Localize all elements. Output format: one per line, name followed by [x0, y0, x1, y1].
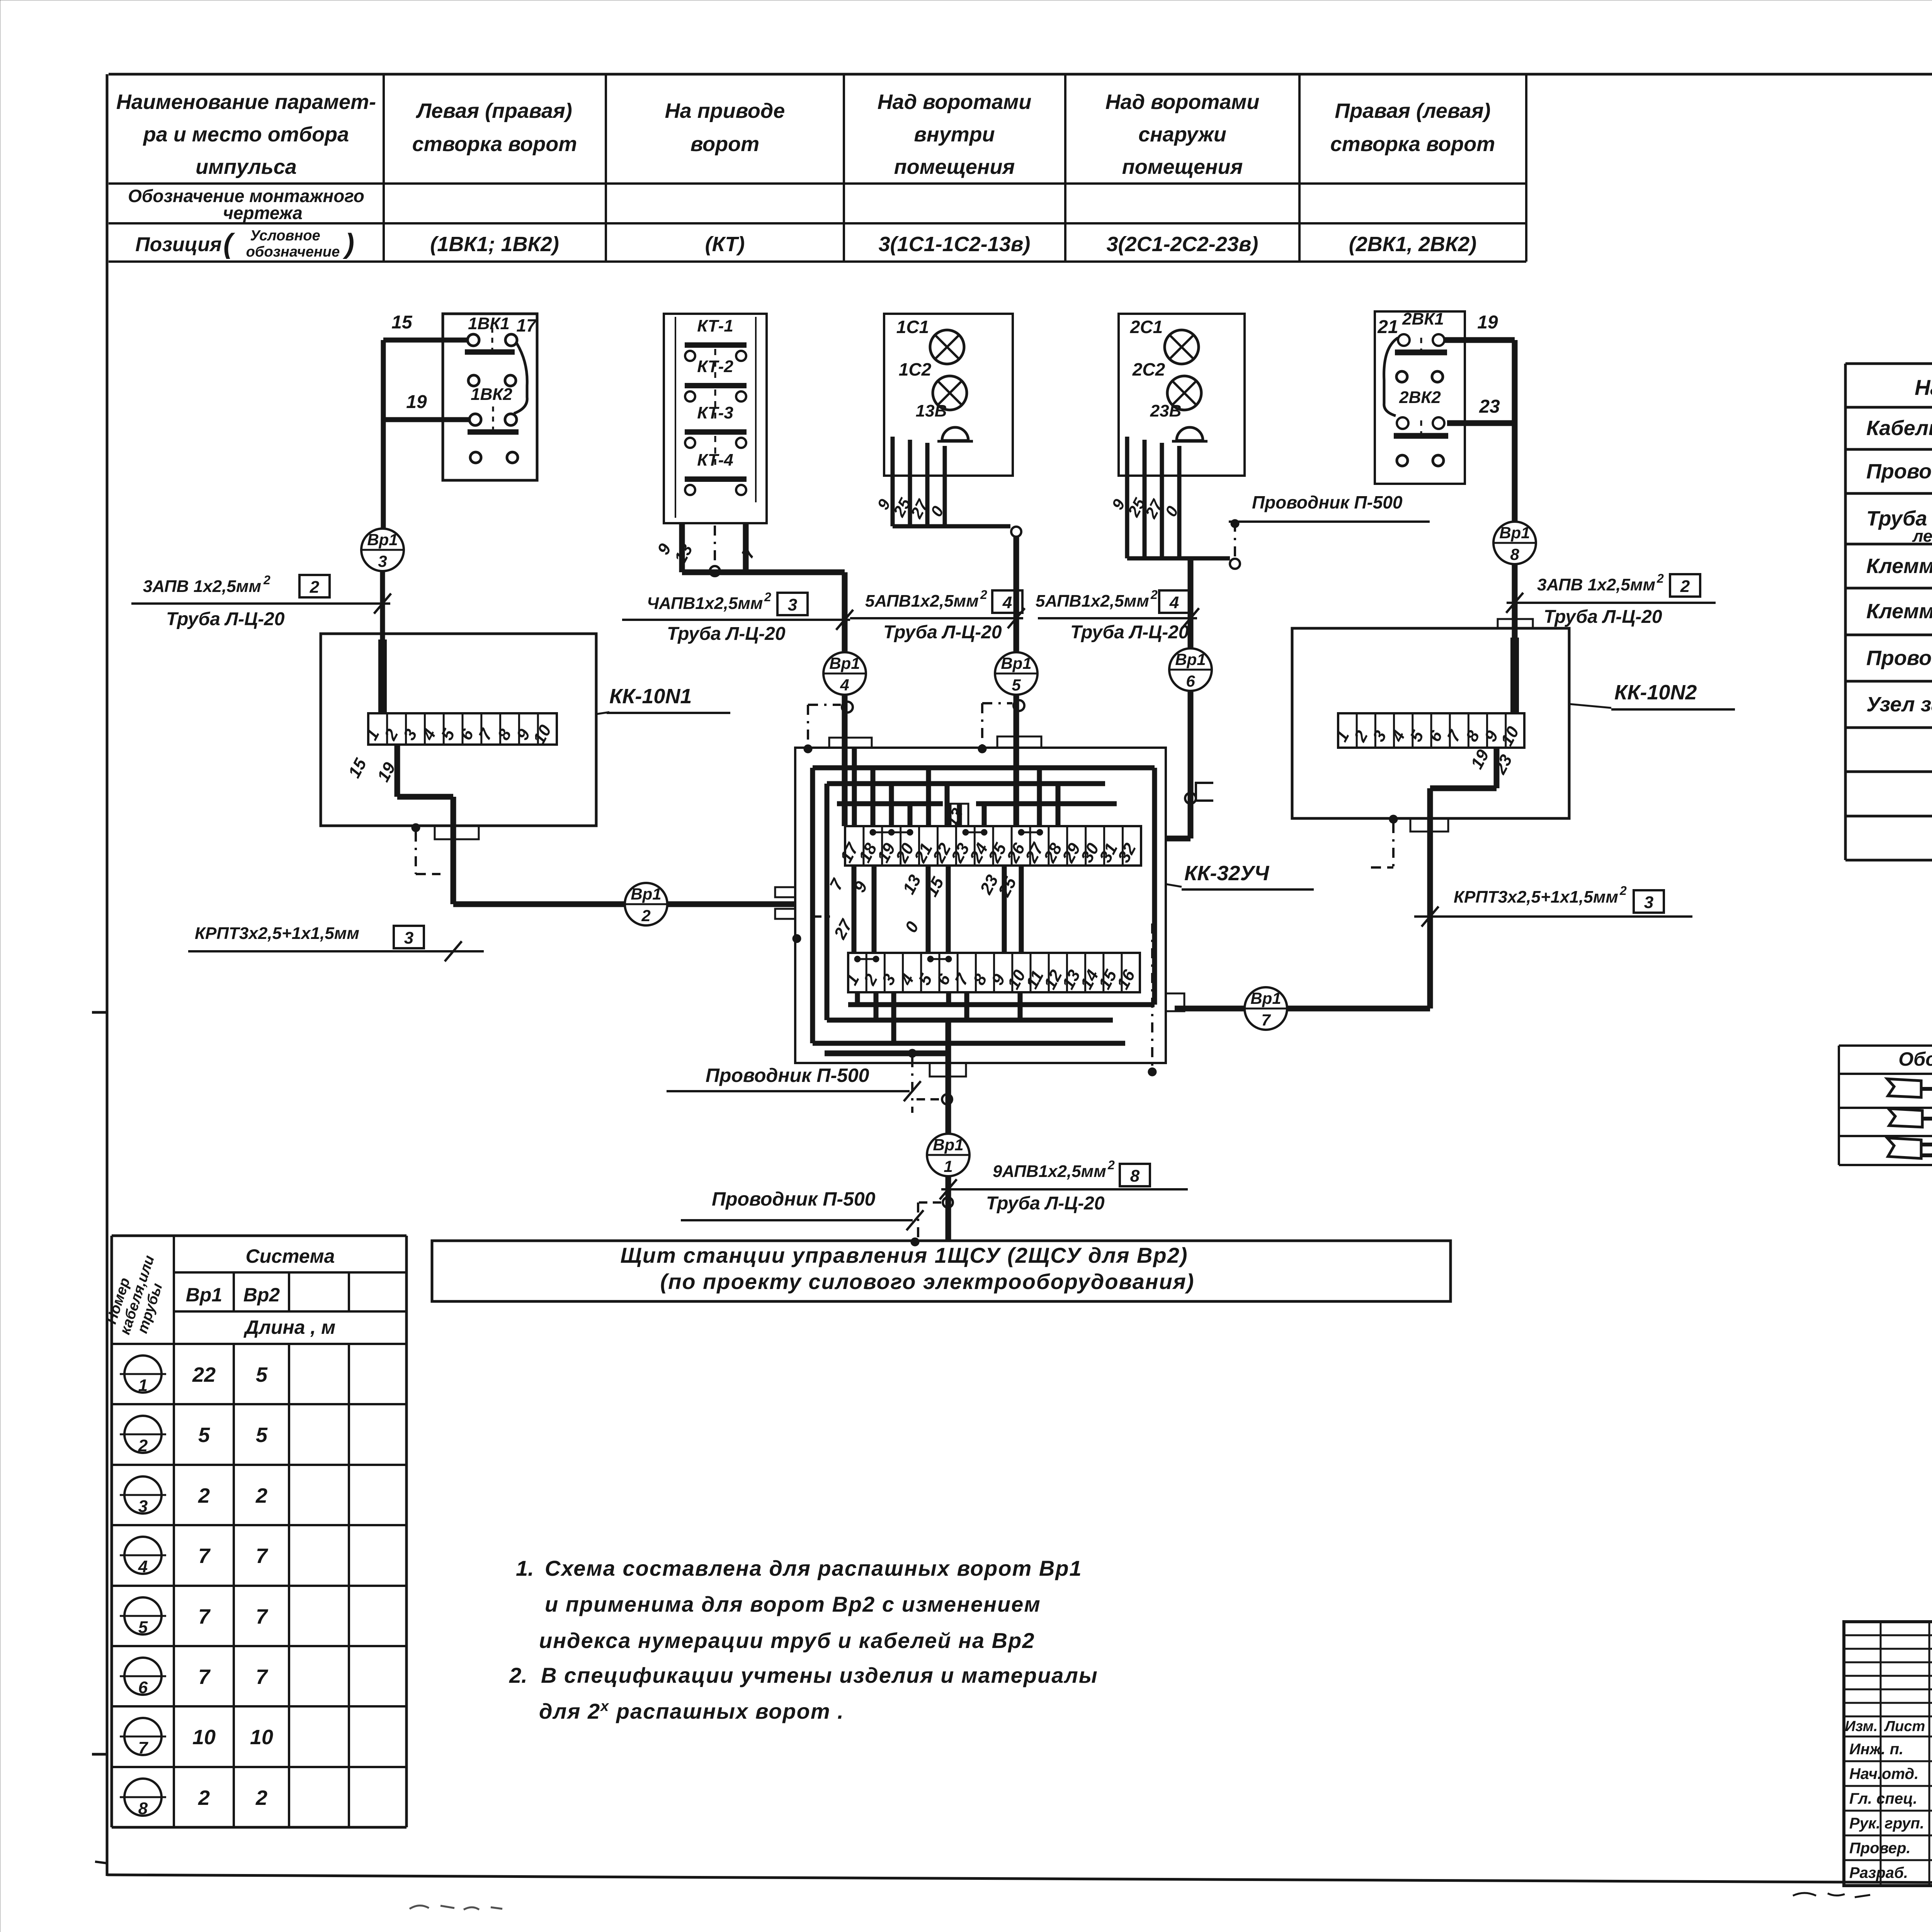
svg-text:Проводник П-500: Проводник П-500 — [1252, 492, 1403, 512]
earth circle 2С — [1230, 559, 1240, 569]
svg-text:7: 7 — [256, 1605, 269, 1628]
svg-text:Вр1: Вр1 — [631, 885, 661, 903]
svg-text:3: 3 — [404, 929, 413, 947]
legend row 3 symbol — [1887, 1138, 1921, 1158]
earth circle on riser 2 — [943, 1197, 953, 1207]
svg-text:Рук. груп.: Рук. груп. — [1849, 1815, 1924, 1832]
svg-text:2: 2 — [1107, 1158, 1115, 1172]
svg-text:Клеммная коробка: Клеммная коробка — [1866, 600, 1932, 623]
svg-text:2С2: 2С2 — [1132, 359, 1165, 379]
svg-text:2: 2 — [255, 1786, 267, 1810]
svg-text:КК-32УЧ: КК-32УЧ — [1184, 862, 1270, 885]
svg-text:8: 8 — [138, 1799, 148, 1818]
cable number box 3 — [394, 926, 424, 948]
svg-text:Вр1: Вр1 — [1175, 650, 1206, 668]
sheet frame bottom border — [107, 1875, 1932, 1886]
cable number box 3 — [777, 593, 808, 615]
earth circle under КТ — [710, 566, 720, 576]
svg-text:19: 19 — [1477, 312, 1498, 333]
svg-text:Правая (левая): Правая (левая) — [1335, 99, 1490, 122]
svg-text:2: 2 — [255, 1484, 267, 1507]
svg-text:КТ-4: КТ-4 — [697, 451, 733, 469]
specification table grid — [1844, 364, 1847, 860]
svg-text:7: 7 — [198, 1665, 211, 1689]
svg-text:2.: 2. — [509, 1663, 527, 1687]
svg-text:2: 2 — [198, 1786, 210, 1810]
svg-text:Клеммная коробка: Клеммная коробка — [1866, 554, 1932, 578]
svg-text:8: 8 — [1130, 1167, 1140, 1185]
svg-text:и применима для ворот Вр2: и применима для ворот Вр2 с изменением — [545, 1592, 1041, 1616]
control station panel box ЩСУ — [432, 1241, 1451, 1301]
marker Вр1/5 — [995, 652, 1037, 695]
svg-text:7: 7 — [1261, 1011, 1271, 1029]
svg-text:2: 2 — [310, 578, 320, 597]
svg-text:Над воротами: Над воротами — [878, 90, 1032, 114]
sheet frame top border — [109, 73, 1932, 76]
svg-text:5: 5 — [256, 1363, 268, 1386]
svg-text:для 2х распашных ворот .: для 2х распашных ворот . — [539, 1698, 844, 1723]
marker Вр1/4 — [823, 652, 866, 695]
svg-text:1С1: 1С1 — [896, 317, 929, 337]
svg-text:Условное: Условное — [250, 228, 320, 244]
svg-text:Щит станции управления: Щит станции управления 1ЩСУ (2ЩСУ для Вр… — [620, 1243, 1188, 1267]
svg-text:2: 2 — [641, 906, 650, 925]
cable row marker circle 4 — [124, 1537, 162, 1574]
lamp 1С2 — [933, 376, 967, 410]
svg-text:снаружи: снаружи — [1138, 123, 1226, 146]
svg-text:ворот: ворот — [690, 133, 759, 156]
cable КРПТ to Вр1/2 — [453, 901, 625, 907]
limit switch box 2ВК1/2ВК2 — [1375, 311, 1465, 484]
svg-text:13В: 13В — [916, 401, 947, 420]
КК-10N1 label — [596, 712, 609, 714]
bump connector on top of КК-10N2 — [1498, 619, 1533, 628]
earth circle below Вр1/4 — [842, 702, 853, 713]
svg-text:(1ВК1; 1ВК2): (1ВК1; 1ВК2) — [430, 233, 559, 256]
limit switch box 1ВК1/1ВК2 — [443, 314, 537, 480]
svg-text:2: 2 — [138, 1436, 148, 1455]
thick feeder inside КК-10N1 — [378, 639, 387, 713]
svg-text:Кабель контрольный: Кабель контрольный — [1866, 417, 1932, 440]
svg-text:9АПВ1х2,5мм: 9АПВ1х2,5мм — [993, 1162, 1106, 1181]
stray pencil note bottom left of title block — [1793, 1893, 1870, 1897]
earth dash-dot to П-500 (first) — [911, 1057, 913, 1113]
svg-text:помещения: помещения — [894, 155, 1015, 179]
svg-text:КТ-3: КТ-3 — [697, 403, 733, 422]
middle pin circles — [468, 375, 479, 386]
svg-text:Вр1: Вр1 — [933, 1136, 963, 1154]
legend row 2 symbol — [1888, 1109, 1922, 1127]
svg-text:3: 3 — [1644, 893, 1653, 912]
svg-text:1ВК2: 1ВК2 — [471, 385, 512, 404]
svg-text:КТ-2: КТ-2 — [697, 357, 733, 376]
svg-text:Схема составлена для расп: Схема составлена для распашных ворот Вр1 — [545, 1556, 1082, 1580]
jumper 21 to 2ВК2 — [1384, 338, 1398, 416]
wire 15 — [383, 338, 468, 343]
svg-text:Над воротами: Над воротами — [1105, 90, 1260, 114]
svg-text:3: 3 — [788, 595, 797, 614]
svg-text:Позиция: Позиция — [135, 233, 221, 256]
top terminal strip 17-32 — [845, 826, 1141, 866]
connector tabs on КК-32УЧ left — [775, 887, 795, 897]
contact 2ВК2 — [1397, 417, 1408, 429]
svg-text:4: 4 — [840, 676, 849, 694]
svg-text:импульса: импульса — [196, 155, 297, 179]
cable number box 4 — [992, 590, 1022, 613]
jumper bridges with dots on strips — [873, 832, 910, 833]
svg-text:чертежа: чертежа — [223, 203, 303, 223]
wire КК-32УЧ to Вр1/7 — [1175, 1006, 1245, 1012]
svg-text:22: 22 — [192, 1363, 216, 1386]
svg-text:Разраб.: Разраб. — [1849, 1864, 1908, 1881]
svg-text:3(2С1-2С2-23в): 3(2С1-2С2-23в) — [1107, 233, 1259, 256]
earth dash-dot under КК-10N2 — [1389, 815, 1398, 823]
cable number box 3 — [1634, 890, 1664, 913]
svg-text:2С1: 2С1 — [1130, 317, 1163, 337]
bell 13В — [942, 427, 968, 440]
earth dash-dot inside left — [811, 915, 835, 918]
strip exit wires 15/19 — [395, 745, 400, 797]
svg-text:Проводник П-500: Проводник П-500 — [706, 1065, 869, 1086]
svg-text:Гл. спец.: Гл. спец. — [1849, 1790, 1917, 1807]
wire Вр1/6 down — [1188, 691, 1194, 838]
svg-text:Вр1: Вр1 — [829, 654, 860, 672]
svg-text:Нач.отд.: Нач.отд. — [1849, 1765, 1918, 1782]
bottom pin circles — [1397, 455, 1408, 466]
internal bus wires — [813, 765, 1155, 770]
svg-text:Провер.: Провер. — [1849, 1840, 1911, 1857]
riser to Вр1/8 — [1512, 340, 1518, 522]
svg-text:19: 19 — [406, 392, 427, 412]
top parameters table grid — [383, 74, 385, 262]
svg-text:8: 8 — [1510, 545, 1519, 563]
legend row 1 symbol (flag + dash-dot line) — [1887, 1079, 1921, 1097]
svg-text:17: 17 — [516, 315, 537, 335]
bus drops below bottom strip — [855, 992, 860, 1005]
wire 23 — [1447, 420, 1515, 426]
cable row marker circle 2 — [124, 1416, 162, 1453]
svg-text:Инж. п.: Инж. п. — [1849, 1741, 1903, 1758]
svg-text:2: 2 — [764, 590, 771, 604]
earth circle on Вр1/6 wire — [1185, 793, 1196, 804]
КК-10N2 terminal strip — [1338, 713, 1524, 748]
svg-text:3АПВ 1х2,5мм: 3АПВ 1х2,5мм — [143, 577, 261, 596]
cable number box 2 — [1670, 574, 1700, 597]
svg-text:3: 3 — [138, 1497, 148, 1516]
wire Вр1/3 to КК-10N1 — [380, 571, 385, 713]
svg-text:3АПВ 1х2,5мм: 3АПВ 1х2,5мм — [1537, 575, 1655, 594]
svg-text:7: 7 — [138, 1738, 149, 1757]
lamp 2С1 — [1165, 330, 1199, 364]
bump connector under КК-10N1 — [435, 826, 479, 839]
svg-text:Обозначение: Обозначение — [1898, 1048, 1932, 1070]
connector tab to Вр1/7 — [1166, 993, 1184, 1011]
svg-text:Наименование: Наименование — [1915, 375, 1932, 400]
terminal box КК-10N1 — [321, 634, 596, 826]
inter-strip wires — [852, 866, 857, 953]
svg-text:1: 1 — [944, 1157, 952, 1175]
svg-text:створка ворот: створка ворот — [412, 133, 577, 156]
earth circle 1С — [1011, 527, 1021, 537]
marker Вр1/7 — [1245, 987, 1287, 1030]
svg-text:Труба Л-Ц-20: Труба Л-Ц-20 — [883, 622, 1002, 643]
svg-text:1С2: 1С2 — [899, 359, 932, 379]
svg-text:4: 4 — [138, 1557, 148, 1576]
svg-text:Наименование парамет-: Наименование парамет- — [116, 90, 376, 114]
cable row marker circle 8 — [124, 1779, 162, 1816]
svg-text:Труба Л-Ц-20: Труба Л-Ц-20 — [1544, 607, 1662, 627]
svg-text:Труба Л-Ц-20: Труба Л-Ц-20 — [1070, 622, 1189, 643]
svg-text:7: 7 — [198, 1605, 211, 1628]
svg-text:6: 6 — [1186, 672, 1195, 690]
riser to Вр1/4 — [842, 572, 848, 652]
svg-text:Левая (правая): Левая (правая) — [415, 99, 572, 122]
lamp box 1С1/1С2/13В — [884, 314, 1013, 476]
2С group exit wires — [1125, 437, 1129, 558]
svg-text:2ВК2: 2ВК2 — [1399, 388, 1441, 407]
contact 2ВК1 — [1398, 334, 1410, 346]
svg-text:ра и место отбора: ра и место отбора — [143, 123, 349, 146]
svg-text:КК-10N1: КК-10N1 — [609, 685, 692, 708]
svg-text:Вр2: Вр2 — [243, 1284, 280, 1306]
inner outline — [675, 317, 676, 518]
contact 1ВК1 — [468, 334, 479, 346]
cable number box 2 — [299, 575, 330, 597]
svg-text:Труба Л-Ц-20: Труба Л-Ц-20 — [166, 609, 285, 629]
svg-text:Проводник: Проводник — [1866, 646, 1932, 670]
cable number box 8 — [1120, 1164, 1150, 1186]
earth dash-dot inside right — [1151, 923, 1153, 1070]
svg-text:5АПВ1х2,5мм: 5АПВ1х2,5мм — [865, 592, 979, 611]
svg-text:Система: Система — [246, 1245, 335, 1267]
svg-text:Вр1: Вр1 — [1250, 989, 1281, 1007]
bottom terminal strip 1-16 — [848, 953, 1140, 992]
svg-text:2: 2 — [1680, 577, 1690, 596]
sheet frame left border — [106, 74, 109, 1876]
thick feeder inside КК-10N2 — [1510, 638, 1519, 713]
lamp 2С2 — [1167, 376, 1201, 410]
riser wire to Вр1/3 — [381, 340, 386, 529]
cable row marker circle 6 — [124, 1658, 162, 1695]
svg-text:2ВК1: 2ВК1 — [1402, 310, 1444, 328]
lamp box 2С1/2С2/23В — [1119, 314, 1245, 476]
svg-text:2: 2 — [263, 573, 270, 587]
marker Вр1/1 — [927, 1134, 969, 1176]
svg-text:ЧАПВ1х2,5мм: ЧАПВ1х2,5мм — [647, 594, 763, 613]
svg-text:2: 2 — [1619, 884, 1627, 898]
bump connectors on top of КК-32УЧ — [829, 738, 872, 748]
earth circle on riser — [942, 1094, 952, 1104]
strip exit wires 19/23 — [1494, 748, 1500, 788]
svg-text:7: 7 — [198, 1544, 211, 1568]
bell 23В — [1177, 427, 1203, 440]
svg-text:КК-10N2: КК-10N2 — [1614, 681, 1697, 704]
stray pencil marks bottom left — [410, 1905, 502, 1910]
cable row marker circle 7 — [124, 1718, 162, 1755]
svg-text:21: 21 — [1377, 317, 1398, 337]
marker Вр1/8 — [1493, 522, 1536, 564]
svg-text:1.: 1. — [516, 1556, 534, 1580]
wire 19 — [1445, 337, 1515, 343]
svg-text:5: 5 — [198, 1423, 210, 1447]
drive box КТ (KT-1..KT-4 contacts) — [664, 314, 767, 523]
svg-text:Узел заземления: Узел заземления — [1866, 693, 1932, 716]
bus drop wires to strip 17-32 — [852, 748, 857, 826]
rotated header "Номер кабеля или трубы" — [101, 1248, 173, 1342]
КК-32УЧ label — [1166, 884, 1182, 887]
bump connector under КК-10N2 — [1410, 818, 1448, 832]
svg-text:Труба Л-Ц-20: Труба Л-Ц-20 — [986, 1193, 1105, 1214]
centering tick marks on left border — [92, 1011, 107, 1014]
svg-text:4: 4 — [1002, 593, 1012, 612]
svg-text:5: 5 — [256, 1423, 268, 1447]
earth circle below Вр1/5 — [1014, 700, 1024, 711]
cable row marker circle 1 — [124, 1355, 162, 1393]
marker Вр1/2 — [625, 883, 667, 925]
svg-text:23В: 23В — [1150, 401, 1182, 420]
middle pin circles — [1396, 371, 1407, 382]
svg-text:15: 15 — [391, 312, 413, 333]
svg-text:КТ-1: КТ-1 — [697, 316, 733, 335]
bottom pin circles — [470, 452, 481, 463]
svg-text:Вр1: Вр1 — [1499, 524, 1530, 542]
КК-10N2 label — [1569, 704, 1611, 708]
marker Вр1/6 — [1169, 648, 1212, 691]
svg-text:4: 4 — [1169, 593, 1179, 612]
svg-text:1: 1 — [138, 1376, 148, 1395]
svg-text:(2ВК1, 2ВК2): (2ВК1, 2ВК2) — [1349, 233, 1477, 256]
small box 13 above strip — [951, 804, 968, 826]
terminal box КК-10N2 — [1292, 628, 1569, 818]
svg-text:10: 10 — [192, 1726, 216, 1749]
dash-dot earth into box (left of Вр1/5) — [982, 702, 1012, 704]
svg-text:КРПТ3х2,5+1х1,5мм: КРПТ3х2,5+1х1,5мм — [195, 924, 359, 943]
bracket connector on КК-32УЧ right — [1196, 783, 1213, 801]
cable row marker circle 5 — [124, 1597, 162, 1634]
svg-text:7: 7 — [256, 1665, 269, 1689]
svg-text:3(1С1-1С2-13в): 3(1С1-1С2-13в) — [879, 233, 1031, 256]
svg-text:обозначение: обозначение — [246, 244, 340, 260]
КК-10N1 terminal strip — [368, 713, 557, 745]
svg-text:На приводе: На приводе — [665, 99, 785, 122]
svg-text:6: 6 — [138, 1678, 148, 1697]
wire Вр1/1 to ЩСУ — [946, 1176, 951, 1242]
left/bottom bus loop — [825, 784, 830, 1020]
svg-text:2: 2 — [198, 1484, 210, 1507]
svg-text:Проводник П-500: Проводник П-500 — [712, 1188, 876, 1210]
svg-text:внутри: внутри — [914, 123, 995, 146]
1С group exit wires — [891, 437, 895, 526]
earth dash-dot under КК-10N1 — [412, 823, 420, 832]
title block outer — [1844, 1622, 1932, 1886]
cable row marker circle 3 — [124, 1476, 162, 1514]
svg-text:(по проекту силового: (по проекту силового электрооборудования… — [660, 1269, 1195, 1294]
marker Вр1/3 — [361, 529, 404, 571]
svg-text:5: 5 — [1012, 676, 1021, 694]
svg-text:2: 2 — [1150, 588, 1158, 602]
svg-text:помещения: помещения — [1122, 155, 1243, 179]
svg-text:Вр1: Вр1 — [186, 1284, 222, 1306]
jumper 17 to 1ВК2 — [514, 343, 527, 413]
wire 19 — [383, 417, 469, 422]
riser to Вр1/6 — [1188, 558, 1194, 648]
svg-text:3: 3 — [378, 552, 387, 570]
svg-text:1ВК1: 1ВК1 — [468, 314, 510, 333]
riser to Вр1/5 — [1014, 537, 1019, 652]
svg-text:Длина , м: Длина , м — [243, 1316, 335, 1338]
legend table grid — [1839, 1044, 1932, 1047]
title block revision grid — [1844, 1634, 1932, 1636]
earth dash-dot to 2С group — [1234, 522, 1236, 558]
wire Вр1/4 down — [842, 695, 848, 826]
svg-text:Труба Л-Ц-20: Труба Л-Ц-20 — [667, 624, 786, 644]
svg-text:Провод установочный: Провод установочный — [1866, 460, 1932, 483]
terminal box КК-32УЧ outer — [795, 748, 1166, 1063]
signature rows — [1844, 1760, 1932, 1762]
svg-text:индекса нумерации труб и к: индекса нумерации труб и кабелей на Вр2 — [539, 1628, 1035, 1653]
svg-text:(КТ): (КТ) — [705, 233, 745, 256]
cable number box 4 — [1159, 590, 1189, 613]
lamp 1С1 — [930, 330, 964, 364]
svg-text:10: 10 — [250, 1726, 273, 1749]
svg-text:23: 23 — [1479, 396, 1500, 417]
cable length table grid — [111, 1236, 113, 1827]
svg-text:5: 5 — [138, 1618, 148, 1637]
svg-text:Изм.: Изм. — [1845, 1718, 1878, 1735]
svg-text:2: 2 — [980, 588, 987, 602]
svg-text:легкая: легкая — [1912, 527, 1932, 546]
svg-text:7: 7 — [256, 1544, 269, 1568]
wire Вр1/5 down — [1014, 695, 1019, 826]
svg-text:В спецификации учтены изде: В спецификации учтены изделия и материал… — [541, 1663, 1098, 1687]
svg-text:Вр1: Вр1 — [1001, 654, 1031, 672]
svg-text:5АПВ1х2,5мм: 5АПВ1х2,5мм — [1036, 592, 1149, 611]
bottom bus exit wire — [930, 1063, 966, 1077]
svg-text:Вр1: Вр1 — [367, 531, 398, 549]
svg-text:створка ворот: створка ворот — [1330, 133, 1495, 156]
svg-text:Лист: Лист — [1884, 1718, 1925, 1735]
КТ bottom exit wires — [679, 523, 685, 572]
svg-text:КРПТ3х2,5+1х1,5мм: КРПТ3х2,5+1х1,5мм — [1454, 888, 1618, 906]
dash-dot earth into box (left of Вр1/4) — [808, 704, 841, 706]
svg-text:2: 2 — [1656, 571, 1664, 585]
contact 1ВК2 — [469, 414, 481, 425]
